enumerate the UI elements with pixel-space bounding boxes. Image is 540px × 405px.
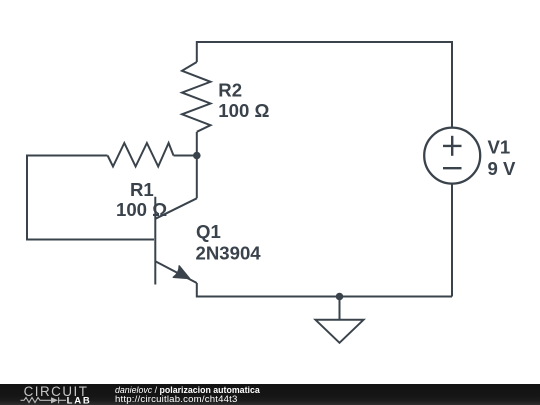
wire R2 bottom to node	[196, 132, 198, 156]
svg-text:R2: R2	[218, 80, 242, 101]
svg-text:2N3904: 2N3904	[196, 242, 262, 263]
svg-text:R1: R1	[130, 179, 154, 200]
wire emitter to bottom rail	[197, 283, 452, 297]
ground symbol	[316, 297, 364, 343]
label V1 value	[488, 136, 517, 179]
transistor Q1 2N3904	[155, 197, 197, 285]
svg-text:Q1: Q1	[196, 221, 221, 242]
label Q1 value	[196, 221, 262, 263]
CircuitLab logo	[0, 383, 100, 405]
label R1 value	[116, 179, 167, 220]
svg-text:V1: V1	[488, 136, 511, 157]
credit text	[114, 383, 116, 385]
node junction dot ground	[336, 293, 344, 301]
svg-text:LAB: LAB	[67, 395, 92, 405]
svg-text:100 Ω: 100 Ω	[218, 100, 269, 121]
voltage source V1	[424, 128, 480, 184]
label R2 value	[218, 80, 269, 122]
wire top rail from R2 top to V1 top	[197, 42, 452, 128]
bottom watermark bar	[0, 384, 540, 405]
wire R1 right to node	[174, 155, 197, 157]
resistor R1	[108, 143, 174, 167]
node junction dot at R1/R2/collector	[193, 152, 201, 160]
wire V1 bottom to rail	[451, 184, 453, 297]
resistor R2	[182, 62, 211, 132]
svg-text:9 V: 9 V	[488, 158, 517, 179]
wire collector to node	[196, 156, 198, 199]
wire base loop: left leg and bottom	[27, 156, 154, 240]
